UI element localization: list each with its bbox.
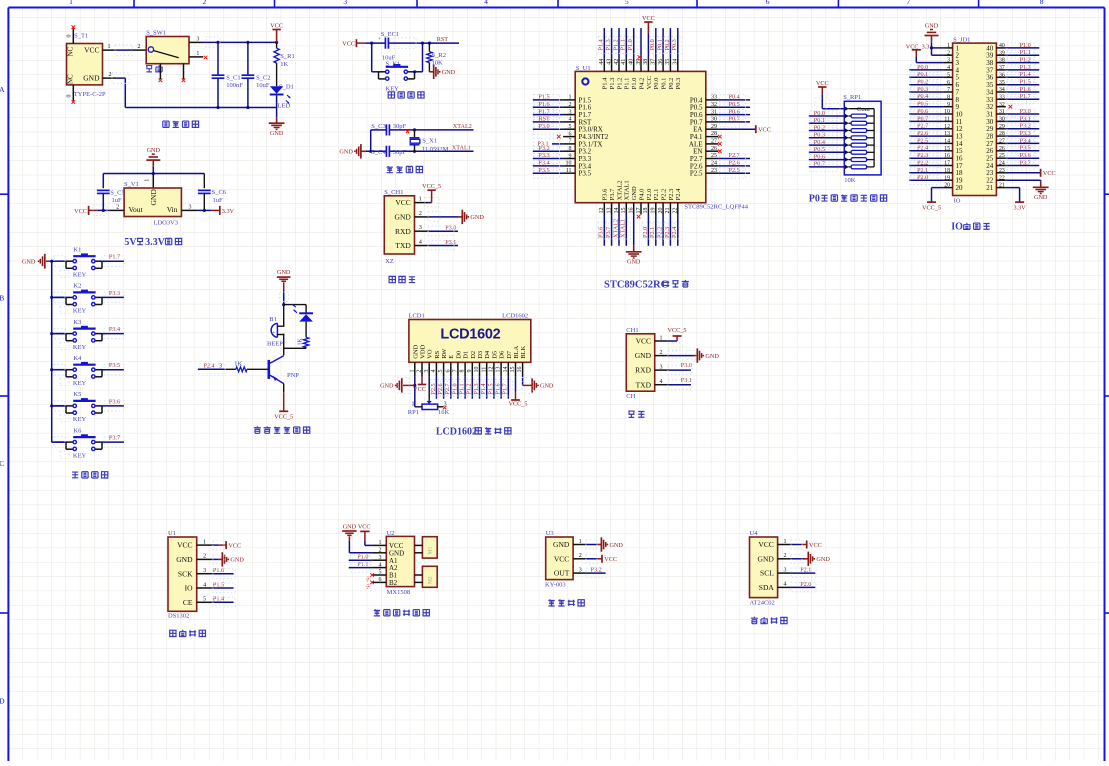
svg-text:P3.5: P3.5 xyxy=(538,167,549,174)
svg-text:P3.7: P3.7 xyxy=(1020,159,1031,166)
svg-text:1: 1 xyxy=(145,179,151,182)
svg-text:OUT: OUT xyxy=(554,569,570,578)
svg-text:3: 3 xyxy=(219,364,222,370)
svg-text:S_R1: S_R1 xyxy=(280,53,294,60)
svg-text:D: D xyxy=(0,697,5,706)
svg-text:P3.0: P3.0 xyxy=(681,362,692,369)
svg-text:5: 5 xyxy=(625,0,629,6)
svg-text:P1.4: P1.4 xyxy=(1020,71,1031,78)
svg-text:6: 6 xyxy=(445,370,451,373)
svg-text:D1: D1 xyxy=(463,351,470,359)
svg-text:P3.0: P3.0 xyxy=(445,225,456,232)
svg-text:3: 3 xyxy=(203,568,206,574)
svg-text:2: 2 xyxy=(784,553,787,559)
svg-text:23: 23 xyxy=(711,168,717,174)
svg-text:34: 34 xyxy=(673,59,679,65)
svg-text:P2.6: P2.6 xyxy=(437,383,444,394)
svg-text:2: 2 xyxy=(579,553,582,559)
svg-text:9: 9 xyxy=(467,370,473,373)
svg-text:P3.5: P3.5 xyxy=(109,362,120,369)
svg-text:2: 2 xyxy=(138,44,141,50)
svg-text:30pF: 30pF xyxy=(393,149,407,156)
svg-text:D5: D5 xyxy=(491,351,498,359)
svg-text:S_R2: S_R2 xyxy=(432,52,446,59)
svg-text:3.3V: 3.3V xyxy=(1013,204,1026,211)
svg-text:3: 3 xyxy=(947,58,950,64)
svg-text:4: 4 xyxy=(419,240,422,246)
svg-text:P0.1: P0.1 xyxy=(814,117,825,124)
svg-text:2: 2 xyxy=(947,50,950,56)
svg-text:36: 36 xyxy=(658,59,664,65)
svg-text:P1.6: P1.6 xyxy=(495,383,502,394)
svg-text:2: 2 xyxy=(109,72,112,78)
svg-text:IO: IO xyxy=(954,198,961,205)
svg-text:S_C5: S_C5 xyxy=(110,190,124,197)
svg-text:LCD1602: LCD1602 xyxy=(440,326,500,342)
svg-text:P3.7: P3.7 xyxy=(605,227,612,238)
svg-text:P1.3: P1.3 xyxy=(609,78,616,90)
svg-text:3: 3 xyxy=(379,555,382,561)
svg-text:VCC: VCC xyxy=(604,556,617,563)
svg-text:P2.5: P2.5 xyxy=(729,167,740,174)
svg-text:0: 0 xyxy=(67,95,73,98)
svg-text:20: 20 xyxy=(658,208,664,214)
svg-text:GND: GND xyxy=(380,383,394,390)
svg-text:P2.4: P2.4 xyxy=(203,363,214,370)
svg-text:+: + xyxy=(378,37,381,42)
svg-text:1K: 1K xyxy=(298,338,304,346)
svg-text:P0.2: P0.2 xyxy=(814,124,825,131)
svg-text:P1.0: P1.0 xyxy=(451,383,458,394)
svg-text:XTAL1: XTAL1 xyxy=(452,145,471,152)
svg-text:P0.7: P0.7 xyxy=(729,116,740,123)
svg-text:P3.6: P3.6 xyxy=(598,227,605,238)
svg-text:P1.1: P1.1 xyxy=(459,383,466,394)
svg-text:2: 2 xyxy=(660,350,663,356)
svg-text:P2.6: P2.6 xyxy=(729,160,740,167)
svg-text:0: 0 xyxy=(67,35,73,38)
svg-text:VCC: VCC xyxy=(646,76,653,89)
svg-text:K5: K5 xyxy=(73,391,81,398)
svg-text:8: 8 xyxy=(947,94,950,100)
svg-text:P3.6: P3.6 xyxy=(1020,152,1031,159)
svg-text:18: 18 xyxy=(944,168,950,174)
svg-text:P0.5: P0.5 xyxy=(729,101,740,108)
svg-text:VCC: VCC xyxy=(177,541,192,550)
svg-text:P3.4: P3.4 xyxy=(109,326,120,333)
svg-text:D4: D4 xyxy=(484,350,491,359)
svg-text:1: 1 xyxy=(203,539,206,545)
svg-text:24: 24 xyxy=(711,161,717,167)
svg-text:4: 4 xyxy=(431,370,437,373)
svg-text:D7: D7 xyxy=(506,350,513,359)
svg-text:13: 13 xyxy=(496,367,502,373)
svg-text:P3.1: P3.1 xyxy=(1020,115,1031,122)
svg-text:4: 4 xyxy=(379,562,382,568)
svg-text:P1.7: P1.7 xyxy=(109,254,120,261)
svg-text:P3.4: P3.4 xyxy=(538,160,549,167)
svg-text:P3.6: P3.6 xyxy=(602,188,609,200)
svg-text:P0.6: P0.6 xyxy=(729,108,740,115)
svg-text:VCC: VCC xyxy=(395,198,410,207)
svg-text:STC89C52RC_LQFP44: STC89C52RC_LQFP44 xyxy=(684,204,748,211)
svg-text:P2.7: P2.7 xyxy=(729,152,740,159)
svg-text:31: 31 xyxy=(999,109,1005,115)
svg-text:P1.1: P1.1 xyxy=(1020,49,1031,56)
svg-text:KEY: KEY xyxy=(73,271,87,278)
svg-text:U1: U1 xyxy=(168,530,176,537)
svg-text:21: 21 xyxy=(665,208,671,214)
svg-text:4: 4 xyxy=(947,65,950,71)
svg-text:K2: K2 xyxy=(73,283,81,290)
svg-text:GND: GND xyxy=(339,149,353,156)
svg-text:10: 10 xyxy=(566,161,572,167)
svg-text:GND: GND xyxy=(705,353,719,360)
svg-text:40: 40 xyxy=(629,59,635,65)
svg-text:P0.3: P0.3 xyxy=(671,39,678,50)
svg-text:P0.3: P0.3 xyxy=(675,78,682,90)
svg-text:KEY: KEY xyxy=(73,344,87,351)
svg-text:P1.2: P1.2 xyxy=(612,39,619,50)
svg-text:VCC: VCC xyxy=(358,524,371,531)
svg-text:D3: D3 xyxy=(477,351,484,359)
svg-text:GND: GND xyxy=(442,69,456,76)
svg-text:1: 1 xyxy=(409,370,415,373)
svg-text:2: 2 xyxy=(203,554,206,560)
svg-text:P0.4: P0.4 xyxy=(814,139,825,146)
svg-text:36: 36 xyxy=(999,72,1005,78)
svg-text:23: 23 xyxy=(999,168,1005,174)
svg-text:12: 12 xyxy=(489,367,495,373)
svg-text:2: 2 xyxy=(419,211,422,217)
svg-text:6: 6 xyxy=(569,131,572,137)
svg-text:Vout: Vout xyxy=(129,205,144,214)
svg-text:VCC_5: VCC_5 xyxy=(922,204,941,211)
svg-text:B2: B2 xyxy=(389,579,398,587)
svg-text:DS1302: DS1302 xyxy=(168,613,189,620)
svg-text:S_RP1: S_RP1 xyxy=(843,94,861,101)
svg-text:K3: K3 xyxy=(73,319,81,326)
svg-text:U3: U3 xyxy=(546,530,554,537)
svg-text:P3.5: P3.5 xyxy=(1020,145,1031,152)
svg-text:VO: VO xyxy=(427,349,434,359)
svg-text:P0.7: P0.7 xyxy=(814,161,825,168)
svg-text:GND: GND xyxy=(635,351,652,360)
svg-text:30pF: 30pF xyxy=(393,123,407,130)
svg-text:P0.4: P0.4 xyxy=(729,94,740,101)
svg-text:14: 14 xyxy=(614,208,620,214)
svg-text:VCC: VCC xyxy=(642,15,655,22)
svg-text:4: 4 xyxy=(484,0,488,6)
svg-text:VCC: VCC xyxy=(758,127,771,134)
svg-text:1: 1 xyxy=(947,43,950,49)
svg-text:3: 3 xyxy=(569,109,572,115)
svg-text:KEY: KEY xyxy=(73,380,87,387)
svg-text:RXD: RXD xyxy=(635,366,651,375)
svg-text:KEY: KEY xyxy=(73,308,87,315)
svg-text:6: 6 xyxy=(947,80,950,86)
svg-text:P3.0: P3.0 xyxy=(538,123,549,130)
svg-text:GND: GND xyxy=(925,22,939,29)
svg-text:9: 9 xyxy=(569,153,572,159)
svg-text:IO: IO xyxy=(951,222,963,233)
svg-text:M1: M1 xyxy=(428,546,434,554)
svg-text:GND: GND xyxy=(83,73,100,82)
svg-text:P1.0: P1.0 xyxy=(357,554,368,561)
svg-text:P0.6: P0.6 xyxy=(814,153,825,160)
svg-text:P1.5: P1.5 xyxy=(538,94,549,101)
svg-text:32: 32 xyxy=(711,102,717,108)
svg-text:18: 18 xyxy=(643,208,649,214)
svg-text:2: 2 xyxy=(417,370,423,373)
svg-text:S_C4: S_C4 xyxy=(371,149,386,156)
svg-text:D0: D0 xyxy=(455,351,462,359)
svg-text:26: 26 xyxy=(999,146,1005,152)
svg-text:E: E xyxy=(448,355,455,359)
svg-text:10: 10 xyxy=(474,367,480,373)
svg-text:S_EC1: S_EC1 xyxy=(381,31,399,38)
svg-text:RS: RS xyxy=(434,350,441,358)
svg-text:P1.6: P1.6 xyxy=(213,567,224,574)
svg-text:P1.4: P1.4 xyxy=(480,383,487,394)
svg-text:LCD1602: LCD1602 xyxy=(502,312,528,319)
svg-text:P0.0: P0.0 xyxy=(814,110,825,117)
svg-text:22: 22 xyxy=(673,208,679,214)
svg-text:15: 15 xyxy=(621,208,627,214)
svg-text:K1: K1 xyxy=(73,247,81,254)
svg-text:S_V1: S_V1 xyxy=(124,181,139,188)
svg-text:37: 37 xyxy=(651,59,657,65)
svg-text:BLA: BLA xyxy=(513,345,520,358)
svg-text:1K: 1K xyxy=(234,360,242,367)
svg-text:P1.0: P1.0 xyxy=(1020,42,1031,49)
svg-text:2: 2 xyxy=(379,548,382,554)
svg-text:9: 9 xyxy=(947,102,950,108)
svg-text:24: 24 xyxy=(999,161,1005,167)
svg-text:TYPE-C-2P: TYPE-C-2P xyxy=(74,91,106,98)
svg-text:1: 1 xyxy=(569,95,572,101)
svg-text:GND: GND xyxy=(270,130,284,137)
svg-text:MX1508: MX1508 xyxy=(387,589,410,596)
svg-text:7: 7 xyxy=(569,139,572,145)
svg-text:10K: 10K xyxy=(844,177,856,184)
svg-text:SCL: SCL xyxy=(760,569,774,578)
svg-text:S_T1: S_T1 xyxy=(74,33,88,40)
svg-text:P2.2: P2.2 xyxy=(657,227,664,238)
svg-text:P2.1: P2.1 xyxy=(800,567,811,574)
svg-text:P3.7: P3.7 xyxy=(609,188,616,200)
svg-text:B: B xyxy=(0,294,4,303)
svg-text:6: 6 xyxy=(379,577,382,583)
svg-text:1: 1 xyxy=(419,197,422,203)
svg-text:P3.1: P3.1 xyxy=(681,377,692,384)
svg-text:VCC: VCC xyxy=(270,22,283,29)
svg-text:GND: GND xyxy=(343,524,357,531)
svg-text:GND: GND xyxy=(631,186,638,200)
svg-text:42: 42 xyxy=(614,59,620,65)
svg-text:P1.2: P1.2 xyxy=(616,78,623,90)
svg-text:12: 12 xyxy=(599,208,605,214)
svg-text:S_C3: S_C3 xyxy=(371,123,385,130)
svg-text:100nF: 100nF xyxy=(226,82,243,89)
svg-text:3: 3 xyxy=(196,37,199,43)
svg-text:44: 44 xyxy=(599,59,605,65)
svg-text:30: 30 xyxy=(711,117,717,123)
svg-text:CH: CH xyxy=(626,393,635,400)
svg-text:KEY: KEY xyxy=(73,416,87,423)
svg-text:P0.1: P0.1 xyxy=(657,39,664,50)
svg-text:3: 3 xyxy=(579,567,582,573)
svg-text:LCD1602: LCD1602 xyxy=(436,426,477,437)
svg-text:M2: M2 xyxy=(428,576,434,584)
svg-text:39: 39 xyxy=(999,50,1005,56)
svg-text:RXD: RXD xyxy=(395,227,411,236)
svg-text:1: 1 xyxy=(579,539,582,545)
svg-text:GND: GND xyxy=(22,259,36,266)
svg-text:P3.3: P3.3 xyxy=(1020,130,1031,137)
svg-text:1: 1 xyxy=(379,540,382,546)
svg-text:25: 25 xyxy=(999,153,1005,159)
svg-text:33: 33 xyxy=(999,94,1005,100)
svg-text:SDA: SDA xyxy=(759,583,775,592)
svg-text:B1: B1 xyxy=(269,316,277,323)
svg-text:P2.7: P2.7 xyxy=(444,383,451,394)
svg-text:K4: K4 xyxy=(73,355,82,362)
svg-text:14: 14 xyxy=(503,367,509,373)
svg-text:8: 8 xyxy=(569,146,572,152)
svg-text:7: 7 xyxy=(947,87,950,93)
svg-text:RP1: RP1 xyxy=(408,409,419,416)
svg-text:LDO3V3: LDO3V3 xyxy=(154,220,179,227)
svg-text:38: 38 xyxy=(999,58,1005,64)
svg-text:21: 21 xyxy=(986,184,994,192)
svg-text:GND: GND xyxy=(610,542,624,549)
svg-text:P1.3: P1.3 xyxy=(473,383,480,394)
svg-text:XTAL1: XTAL1 xyxy=(624,180,631,200)
svg-text:S_C2: S_C2 xyxy=(256,74,270,81)
svg-text:S_CH1: S_CH1 xyxy=(384,189,403,196)
svg-text:VCC: VCC xyxy=(554,554,569,563)
svg-text:VCC: VCC xyxy=(758,540,773,549)
svg-text:P1.4: P1.4 xyxy=(602,77,609,89)
svg-text:XTAL2: XTAL2 xyxy=(453,123,472,130)
svg-text:1K: 1K xyxy=(280,61,288,68)
svg-text:21: 21 xyxy=(999,183,1005,189)
svg-text:P2.5: P2.5 xyxy=(690,170,703,178)
svg-text:7: 7 xyxy=(453,370,459,373)
svg-text:S_JD1: S_JD1 xyxy=(953,36,970,43)
svg-text:38: 38 xyxy=(643,59,649,65)
svg-text:VCC_5: VCC_5 xyxy=(668,327,687,334)
svg-text:VCC_5: VCC_5 xyxy=(509,401,528,408)
svg-text:SCK: SCK xyxy=(178,569,193,578)
svg-text:P2.2: P2.2 xyxy=(661,189,668,201)
svg-text:CE: CE xyxy=(183,598,193,607)
svg-text:14: 14 xyxy=(944,139,950,145)
svg-text:8: 8 xyxy=(460,370,466,373)
svg-text:P2.0: P2.0 xyxy=(800,581,811,588)
svg-text:27: 27 xyxy=(999,139,1005,145)
svg-text:5: 5 xyxy=(947,72,950,78)
svg-text:P3.2: P3.2 xyxy=(591,567,602,574)
svg-text:P1.6: P1.6 xyxy=(538,101,549,108)
svg-text:4: 4 xyxy=(203,582,206,588)
svg-text:1: 1 xyxy=(196,51,199,57)
svg-text:11.0592M: 11.0592M xyxy=(422,146,449,153)
svg-text:P2.3: P2.3 xyxy=(664,227,671,238)
svg-text:P1.4: P1.4 xyxy=(213,596,224,603)
svg-text:VCC: VCC xyxy=(74,208,87,215)
svg-text:15: 15 xyxy=(944,146,950,152)
svg-text:22: 22 xyxy=(999,175,1005,181)
svg-text:25: 25 xyxy=(711,153,717,159)
svg-text:P0.0: P0.0 xyxy=(649,39,656,50)
svg-text:35: 35 xyxy=(999,80,1005,86)
svg-text:P1.2: P1.2 xyxy=(466,383,473,394)
svg-text:XZ: XZ xyxy=(385,258,394,265)
svg-text:LCD1: LCD1 xyxy=(409,312,425,319)
svg-text:P0.1: P0.1 xyxy=(661,78,668,90)
svg-text:28: 28 xyxy=(999,131,1005,137)
svg-text:5: 5 xyxy=(379,570,382,576)
svg-text:P2.4: P2.4 xyxy=(671,227,678,238)
svg-text:VCC_5: VCC_5 xyxy=(274,414,293,421)
svg-text:VCC: VCC xyxy=(636,337,651,346)
svg-text:5: 5 xyxy=(203,597,206,603)
svg-text:4: 4 xyxy=(660,379,663,385)
svg-text:40: 40 xyxy=(999,43,1005,49)
svg-text:39: 39 xyxy=(636,59,642,65)
svg-text:3.3V: 3.3V xyxy=(145,237,166,248)
svg-text:KY-003: KY-003 xyxy=(545,581,566,588)
svg-text:20: 20 xyxy=(944,183,950,189)
svg-text:1: 1 xyxy=(412,402,415,408)
svg-text:3: 3 xyxy=(189,205,192,211)
svg-text:P2.4: P2.4 xyxy=(675,188,682,200)
svg-text:NC: NC xyxy=(67,74,75,84)
svg-text:P1.7: P1.7 xyxy=(502,383,509,394)
svg-text:13: 13 xyxy=(944,131,950,137)
svg-text:1uF: 1uF xyxy=(112,197,123,204)
svg-text:P2.0: P2.0 xyxy=(646,189,653,201)
svg-text:P2.1: P2.1 xyxy=(649,227,656,238)
svg-text:P3.3: P3.3 xyxy=(109,290,120,297)
svg-text:P0.3: P0.3 xyxy=(814,132,825,139)
svg-text:P3.4: P3.4 xyxy=(1020,137,1031,144)
svg-text:S_C6: S_C6 xyxy=(212,189,227,196)
svg-text:P0.2: P0.2 xyxy=(664,39,671,50)
svg-text:GND: GND xyxy=(176,555,193,564)
svg-text:+: + xyxy=(273,331,276,336)
svg-text:10uF: 10uF xyxy=(256,82,270,89)
svg-text:P3.0: P3.0 xyxy=(1020,108,1031,115)
svg-text:P1.3: P1.3 xyxy=(605,39,612,50)
svg-text:GND: GND xyxy=(553,540,570,549)
svg-text:1: 1 xyxy=(69,0,73,6)
svg-text:6: 6 xyxy=(766,0,770,6)
svg-text:P1.0: P1.0 xyxy=(631,78,638,90)
svg-text:1uF: 1uF xyxy=(213,197,224,204)
svg-text:XTAL2: XTAL2 xyxy=(616,180,623,200)
svg-text:D6: D6 xyxy=(499,350,506,359)
svg-text:30: 30 xyxy=(999,117,1005,123)
svg-text:P1.5: P1.5 xyxy=(213,581,224,588)
svg-text:8: 8 xyxy=(1040,0,1044,6)
svg-text:5V: 5V xyxy=(124,237,137,248)
svg-text:VCC: VCC xyxy=(1043,170,1056,177)
svg-text:PNP: PNP xyxy=(287,372,299,379)
svg-text:10: 10 xyxy=(944,109,950,115)
